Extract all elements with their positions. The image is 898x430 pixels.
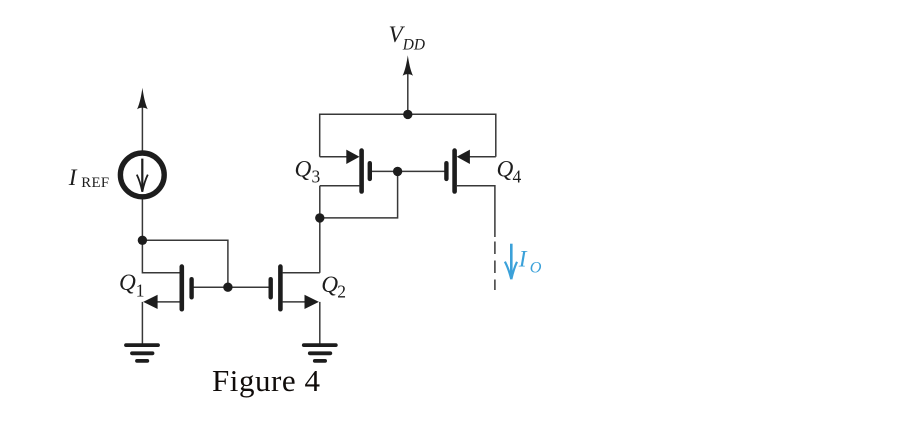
- transistor Q3 channel bar: [359, 151, 364, 192]
- svg-text:2: 2: [337, 282, 346, 302]
- wire Q4 drain dashed output: [494, 242, 496, 291]
- svg-text:1: 1: [136, 280, 145, 300]
- wire top VDD rail: [320, 114, 496, 157]
- ground under Q1: [126, 343, 158, 347]
- wire Q1 source line: [156, 301, 180, 303]
- label IO (cyan): [518, 247, 542, 277]
- wire gate line Q3-Q4: [372, 170, 445, 172]
- label VDD: [389, 22, 426, 54]
- label Q1: [119, 270, 145, 300]
- node B: Q1-Q2 gate junction: [223, 283, 232, 292]
- transistor Q1 channel bar: [180, 267, 185, 310]
- wire Q1 source to ground: [141, 302, 143, 344]
- wire Q3 drain vertical through node to Q2: [319, 186, 321, 273]
- transistor Q3 gate bar: [368, 163, 372, 179]
- wire Q2 source to ground: [319, 302, 321, 344]
- transistor Q4 channel bar: [452, 151, 457, 192]
- wire diode connection node to gate node: [320, 171, 398, 218]
- svg-text:DD: DD: [402, 37, 425, 54]
- wire Q4 drain: [457, 186, 495, 237]
- svg-text:Q: Q: [119, 270, 136, 296]
- transistor Q4 gate bar: [444, 163, 448, 179]
- svg-text:I: I: [68, 165, 78, 191]
- svg-text:I: I: [518, 247, 528, 273]
- node C: Q3 drain / Q2 drain junction: [315, 213, 324, 222]
- ground under Q2: [304, 343, 336, 347]
- arrow Q1 source (pointing left): [143, 295, 157, 309]
- node D: Q3-Q4 gate junction: [393, 167, 402, 176]
- svg-text:3: 3: [312, 167, 321, 187]
- arrow Q3 source (pointing right): [346, 150, 359, 164]
- svg-text:Figure 4: Figure 4: [212, 363, 321, 398]
- arrow Q4 source (pointing left): [457, 150, 470, 164]
- svg-text:Q: Q: [321, 272, 338, 298]
- arrow Q2 source (pointing right): [305, 295, 319, 309]
- node E: VDD rail junction: [403, 110, 412, 119]
- wire node right and down to gate node: [142, 240, 228, 287]
- label Q2: [321, 272, 346, 302]
- svg-text:4: 4: [513, 167, 522, 187]
- wire IREF top lead: [141, 106, 143, 151]
- node A: IREF-Q1 drain junction: [138, 236, 147, 245]
- label Q4: [497, 157, 522, 187]
- wire Q2 drain: [283, 272, 320, 274]
- wire Q3 drain horizontal: [320, 185, 360, 187]
- transistor Q2 channel bar: [278, 267, 283, 310]
- wire gate line Q1-Q2: [193, 286, 269, 288]
- transistor Q2 gate bar: [269, 279, 273, 297]
- svg-text:REF: REF: [81, 175, 109, 191]
- transistor Q1 gate bar: [189, 279, 193, 297]
- wire Q4 source line: [470, 156, 496, 158]
- wire VDD arrow stem: [407, 74, 409, 115]
- label Q3: [295, 157, 321, 187]
- svg-text:Q: Q: [295, 157, 312, 183]
- arrowhead IREF top: [137, 88, 148, 110]
- current source IREF inner arrow: [137, 159, 148, 192]
- label IREF: [68, 165, 110, 191]
- wire Q3 source line: [320, 156, 347, 158]
- wire Q2 source line: [283, 301, 306, 303]
- current source IREF circle: [120, 153, 164, 197]
- wire circle bottom to node: [141, 200, 143, 241]
- output current Io arrow (cyan): [505, 244, 517, 280]
- svg-text:O: O: [530, 258, 542, 276]
- svg-text:Q: Q: [497, 157, 514, 183]
- wire node down to Q1 drain: [142, 240, 180, 272]
- arrowhead VDD: [403, 55, 413, 75]
